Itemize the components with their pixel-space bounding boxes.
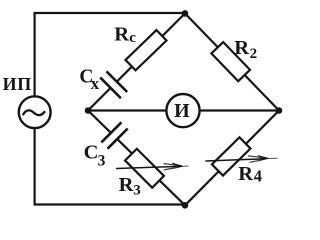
- svg-text:И: И: [174, 100, 190, 122]
- svg-text:R: R: [238, 163, 253, 185]
- arrow of R3: [116, 163, 189, 170]
- wire arm bottom-right: [185, 111, 279, 206]
- svg-text:R: R: [119, 174, 134, 196]
- capacitor Cx: [99, 71, 128, 100]
- node left: [85, 107, 92, 114]
- arrow of R4: [205, 155, 277, 162]
- galvanometer circle U: [166, 94, 199, 127]
- svg-text:x: x: [91, 74, 100, 93]
- source circle (AC): [19, 96, 51, 128]
- node bottom: [182, 202, 189, 209]
- svg-text:2: 2: [250, 46, 258, 62]
- svg-text:4: 4: [254, 167, 262, 186]
- wire galvanometer bridge: [88, 109, 279, 111]
- svg-text:C: C: [84, 142, 99, 164]
- svg-text:3: 3: [98, 153, 106, 170]
- wire top: source to top node: [35, 13, 186, 97]
- wire arm bottom-left: [88, 111, 185, 206]
- node right: [276, 107, 283, 114]
- wire bottom: source to bottom node: [35, 128, 186, 205]
- wire arm top-left: [88, 13, 185, 110]
- svg-text:3: 3: [133, 183, 141, 199]
- svg-text:R: R: [234, 37, 249, 59]
- resistor R4: [212, 137, 251, 175]
- resistor R2: [211, 42, 250, 81]
- resistor R3: [125, 149, 164, 188]
- capacitor C3: [100, 121, 129, 150]
- svg-text:R: R: [114, 24, 129, 46]
- resistor Rc: [125, 30, 166, 70]
- node top: [182, 10, 189, 17]
- wire arm top-right: [185, 13, 279, 110]
- svg-text:c: c: [129, 30, 136, 46]
- sine symbol: [23, 110, 45, 115]
- svg-text:ИП: ИП: [3, 74, 32, 94]
